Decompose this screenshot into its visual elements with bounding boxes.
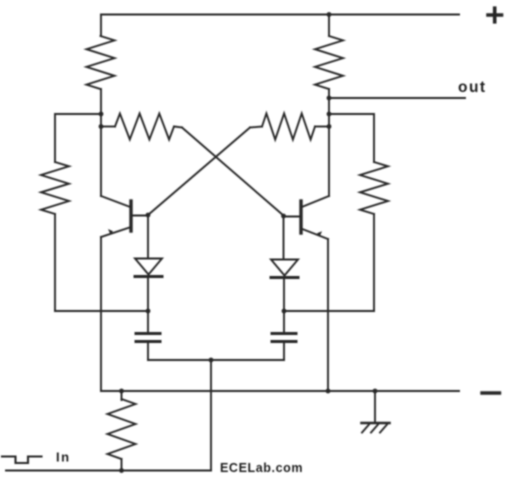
node right cross resistor junction [327,124,332,129]
wire trigger vertical [210,360,212,471]
wire left node to R3 [55,114,101,162]
node trigger tee [209,358,214,363]
label + (positive supply) [488,8,502,22]
label - (negative supply) [482,391,500,394]
node R5 top on rail [119,389,124,394]
diode D2 (right steering) [271,216,298,311]
node D1 cathode junction [146,309,151,314]
node top rail / R2 junction [327,12,332,17]
wire Q2 emitter down [327,239,329,391]
transistor Q2 (right) [284,196,330,239]
resistor R3 (left bias) [41,162,69,311]
wire left collector vertical [100,114,102,196]
node left R3 junction [99,112,104,117]
transistor Q1 (left) [101,196,148,237]
wire right node to R4 [329,114,374,162]
wire Q1 emitter down [100,237,102,391]
node R5 bottom on input line [119,468,124,473]
node D2 cathode junction [282,309,287,314]
wire cross-coupling diagonal right-to-left [148,128,250,216]
node Q1 base junction [146,213,151,218]
resistor Rc2 (right cross-coupling) [250,114,329,140]
wire input line [6,470,211,472]
resistor Rc1 (left cross-coupling) [101,114,182,140]
input pulse symbol [2,457,42,464]
wire R4 to D2 junction [284,310,374,312]
node Q2 emitter on rail [326,389,331,394]
wire cross-coupling diagonal left-to-right [182,128,284,216]
resistor R5 (input) [108,391,136,471]
wire trigger bus [148,359,284,361]
node out junction [327,96,332,101]
svg-text:In: In [56,450,71,465]
ground [362,391,390,433]
node left cross resistor junction [99,124,104,129]
node right R4 junction [327,112,332,117]
node ground on rail [373,389,378,394]
svg-text:out: out [458,79,487,96]
wire bottom negative rail [101,390,459,392]
resistor R1 (left collector) [87,15,115,115]
capacitor C2 (right trigger) [272,311,296,360]
wire out line [329,97,465,99]
node Q2 base junction [281,214,286,219]
resistor R2 (right collector) [315,15,343,99]
capacitor C1 (left trigger) [136,311,160,360]
wire right collector vertical [328,98,330,196]
wire top supply rail [101,14,459,16]
svg-text:ECELab.com: ECELab.com [220,461,303,475]
diode D1 (left steering) [135,215,162,311]
wire R3 to D1 junction [55,310,148,312]
resistor R4 (right bias) [360,162,388,311]
